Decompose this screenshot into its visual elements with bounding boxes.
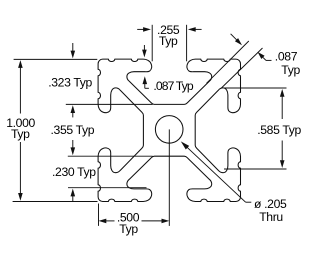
- dim .087 lip up arrow with foot: [143, 76, 148, 84]
- hole leader with arrow: [186, 146, 246, 202]
- dim 1.000 dimension line with arrows: [19, 67, 21, 114]
- svg-text:.087: .087: [275, 50, 298, 64]
- svg-text:Typ: Typ: [281, 63, 300, 77]
- svg-text:Thru: Thru: [259, 210, 283, 224]
- dim .255 right arrow: [195, 28, 202, 30]
- svg-text:.230 Typ: .230 Typ: [52, 165, 96, 179]
- svg-text:.355 Typ: .355 Typ: [51, 123, 95, 137]
- dim .230 bottom arrow: [71, 189, 76, 197]
- extrusion profile outline: [98, 59, 240, 201]
- dim .087 web upper arrow: [231, 34, 237, 40]
- svg-text:.087 Typ: .087 Typ: [153, 79, 193, 93]
- dim 1.000 top extension line: [14, 58, 98, 60]
- dim 1.000 bottom extension line: [13, 201, 98, 203]
- svg-text:.585 Typ: .585 Typ: [257, 123, 301, 137]
- dim .585 dimension line with arrows: [281, 95, 283, 119]
- svg-text:Typ: Typ: [159, 34, 178, 48]
- dim .323/.355 shared extension line: [66, 103, 153, 105]
- dim .255 extension line left: [151, 25, 153, 62]
- dim .255 left arrow: [137, 28, 144, 30]
- dim .355 top arrow: [71, 105, 76, 113]
- svg-text:Typ: Typ: [119, 222, 138, 236]
- dim .355/.230 shared extension line: [68, 155, 153, 157]
- dim .585 bottom extension line: [224, 168, 287, 170]
- dim .087 web extension line 2: [221, 48, 263, 88]
- dim .323 top arrow: [72, 43, 74, 52]
- dim .087 web extension line 1: [207, 41, 249, 83]
- center hole: [155, 116, 183, 144]
- svg-text:.323 Typ: .323 Typ: [48, 75, 92, 89]
- dim .230 bottom extension line: [68, 187, 147, 189]
- center line: [168, 129, 170, 226]
- dim .087 lip down arrow: [143, 45, 145, 52]
- dim .355 bottom arrow: [72, 140, 74, 149]
- dim .500 left extension line: [98, 204, 100, 226]
- dim .585 top extension line: [224, 87, 287, 89]
- svg-text:Typ: Typ: [11, 127, 30, 141]
- dim .500 dimension line with arrows: [104, 220, 115, 222]
- dim .255 extension line right: [186, 25, 188, 62]
- dim .087 web lower arrow and leader: [258, 52, 265, 59]
- svg-text:ø .205: ø .205: [254, 197, 287, 211]
